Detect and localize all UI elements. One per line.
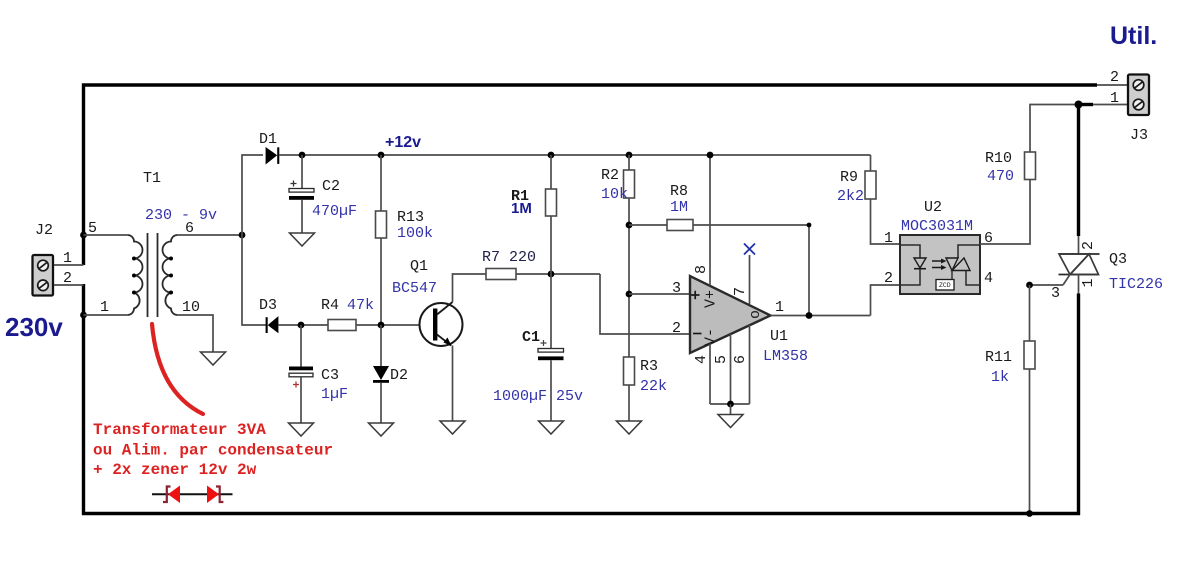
transformer T1 core bbox=[147, 233, 149, 317]
resistor R7 bbox=[486, 269, 516, 280]
node mains junction J3 pin1 bbox=[1075, 101, 1083, 109]
ground D2 bbox=[369, 423, 394, 436]
transformer T1 secondary winding bbox=[163, 235, 178, 315]
svg-text:D1: D1 bbox=[259, 131, 277, 148]
node base junction bbox=[378, 322, 385, 329]
svg-text:5: 5 bbox=[88, 220, 97, 237]
svg-text:U2: U2 bbox=[924, 199, 942, 216]
wire Q1 emitter bbox=[452, 346, 454, 422]
svg-text:47k: 47k bbox=[347, 297, 374, 314]
transformer T1 primary winding bbox=[128, 235, 143, 315]
no-connect X pin 7 bbox=[744, 244, 755, 255]
svg-text:1000µF 25v: 1000µF 25v bbox=[493, 388, 583, 405]
svg-text:Util.: Util. bbox=[1110, 22, 1157, 50]
svg-text:1M: 1M bbox=[511, 200, 532, 217]
transistor Q1 bbox=[420, 302, 463, 346]
pin 8 wire bbox=[709, 155, 711, 286]
svg-text:1: 1 bbox=[1080, 278, 1097, 287]
svg-text:230v: 230v bbox=[5, 312, 63, 342]
ground U1 bbox=[718, 415, 743, 428]
node C2 top bbox=[299, 152, 306, 159]
svg-text:R2: R2 bbox=[601, 167, 619, 184]
ground C3 bbox=[289, 423, 314, 436]
ground T1 pin10 bbox=[201, 352, 226, 365]
wire U1 output bbox=[771, 315, 871, 317]
svg-text:22k: 22k bbox=[640, 378, 667, 395]
node junction border-T1 pin5 bbox=[80, 232, 87, 239]
svg-text:J2: J2 bbox=[35, 222, 53, 239]
svg-text:T1: T1 bbox=[143, 170, 161, 187]
wire R8 left bbox=[629, 224, 667, 226]
svg-text:5: 5 bbox=[713, 355, 730, 364]
op-amp U1 bbox=[690, 276, 771, 353]
node junction border-T1 pin1 bbox=[80, 312, 87, 319]
wire output to U2 pin2 bbox=[871, 285, 901, 316]
mains border bottom wire bbox=[82, 512, 1080, 515]
svg-text:4: 4 bbox=[984, 270, 993, 287]
svg-text:7: 7 bbox=[732, 287, 749, 296]
wire D3 to R4 bbox=[278, 324, 328, 326]
resistor R13 bbox=[376, 155, 387, 325]
svg-text:LM358: LM358 bbox=[763, 348, 808, 365]
svg-text:Transformateur 3VA: Transformateur 3VA bbox=[93, 421, 266, 439]
node C1 top junction bbox=[548, 271, 555, 278]
wire J2 pin2 to border bbox=[54, 284, 84, 286]
wire AC node down to D3 bbox=[242, 235, 266, 325]
svg-text:2: 2 bbox=[884, 270, 893, 287]
resistor R11 bbox=[1024, 285, 1035, 514]
resistor R8 bbox=[667, 220, 693, 231]
node feedback junction bbox=[806, 312, 813, 319]
resistor R10 bbox=[1025, 105, 1079, 180]
node junction AC secondary bbox=[239, 232, 246, 239]
wire AC node up to D1 bbox=[242, 155, 263, 235]
svg-text:1k: 1k bbox=[991, 369, 1009, 386]
svg-text:1: 1 bbox=[100, 299, 109, 316]
diode D1 bbox=[266, 147, 280, 165]
mains right wire stub to J3 pin1 bbox=[1079, 103, 1094, 106]
svg-text:2: 2 bbox=[672, 320, 681, 337]
svg-text:1: 1 bbox=[775, 299, 784, 316]
svg-text:o: o bbox=[747, 310, 764, 319]
wire U2 pin6 to R10 bbox=[980, 180, 1030, 245]
pin 4 wire bbox=[709, 344, 711, 405]
svg-text:D3: D3 bbox=[259, 297, 277, 314]
svg-text:R3: R3 bbox=[640, 358, 658, 375]
svg-text:R10: R10 bbox=[985, 150, 1012, 167]
node R8 corner tick bbox=[807, 223, 812, 228]
svg-text:R7 220: R7 220 bbox=[482, 249, 536, 266]
svg-text:1M: 1M bbox=[670, 199, 688, 216]
svg-text:C2: C2 bbox=[322, 178, 340, 195]
wire to J3 pin2 bbox=[1097, 84, 1128, 86]
svg-text:ZCD: ZCD bbox=[939, 282, 951, 289]
svg-text:2k2: 2k2 bbox=[837, 188, 864, 205]
+12v rail wire bbox=[302, 154, 871, 156]
svg-text:V-: V- bbox=[703, 328, 720, 346]
wire T1 pin1 bbox=[84, 314, 129, 316]
mains border left wire lower bbox=[82, 284, 85, 515]
wire D1 cathode to +12v rail bbox=[279, 154, 302, 156]
node R13 top bbox=[378, 152, 385, 159]
svg-text:V+: V+ bbox=[703, 290, 720, 308]
svg-text:2: 2 bbox=[1080, 241, 1097, 250]
resistor R3 bbox=[624, 357, 635, 421]
svg-text:+12v: +12v bbox=[385, 134, 421, 151]
svg-text:Q3: Q3 bbox=[1109, 251, 1127, 268]
red annotation curve bbox=[152, 324, 203, 414]
svg-text:R9: R9 bbox=[840, 169, 858, 186]
svg-text:Q1: Q1 bbox=[410, 258, 428, 275]
svg-text:8: 8 bbox=[693, 265, 710, 274]
node R11 to mains bottom bbox=[1026, 510, 1033, 517]
pin 6 wire bbox=[749, 325, 751, 404]
svg-text:10k: 10k bbox=[601, 186, 628, 203]
svg-text:2: 2 bbox=[1110, 69, 1119, 86]
svg-text:R11: R11 bbox=[985, 349, 1012, 366]
svg-text:MOC3031M: MOC3031M bbox=[901, 218, 973, 235]
svg-text:6: 6 bbox=[732, 355, 749, 364]
svg-text:ou Alim. par condensateur: ou Alim. par condensateur bbox=[93, 442, 333, 460]
pin 7 wire bbox=[749, 255, 751, 304]
svg-text:470: 470 bbox=[987, 168, 1014, 185]
svg-text:C1: C1 bbox=[522, 329, 540, 346]
connector J3 bbox=[1128, 75, 1149, 116]
mains border left wire upper bbox=[82, 84, 85, 266]
connector J2 bbox=[33, 255, 54, 296]
node op-amp pin3 junction bbox=[626, 291, 633, 298]
resistor R2 bbox=[624, 155, 635, 357]
svg-text:R8: R8 bbox=[670, 183, 688, 200]
svg-text:TIC226: TIC226 bbox=[1109, 276, 1163, 293]
ground R3 bbox=[617, 421, 642, 434]
triac Q3 bbox=[1059, 236, 1100, 294]
svg-text:3: 3 bbox=[1051, 285, 1060, 302]
svg-text:1: 1 bbox=[1110, 90, 1119, 107]
wire T1 pin10 bbox=[177, 315, 213, 352]
wire Q1 collector bbox=[453, 274, 487, 302]
wire R7 to C1 node bbox=[516, 273, 600, 275]
capacitor C1 bbox=[538, 274, 564, 421]
svg-text:230 - 9v: 230 - 9v bbox=[145, 207, 217, 224]
svg-text:R4: R4 bbox=[321, 297, 339, 314]
zener diode D2 bbox=[373, 325, 389, 423]
wire Q3 gate bbox=[1030, 284, 1064, 286]
ground Q1 bbox=[440, 421, 465, 434]
capacitor C3 bbox=[289, 325, 313, 423]
resistor R9 bbox=[865, 155, 900, 244]
ground C2 bbox=[290, 233, 315, 246]
wire J2 pin1 to border bbox=[54, 264, 84, 266]
wire R8 right to feedback bbox=[693, 225, 809, 315]
svg-text:U1: U1 bbox=[770, 328, 788, 345]
svg-text:10: 10 bbox=[182, 299, 200, 316]
optocoupler U2 bbox=[900, 235, 980, 294]
svg-text:+ 2x zener 12v 2w: + 2x zener 12v 2w bbox=[93, 461, 257, 479]
ground C1 bbox=[539, 421, 564, 434]
capacitor C2 bbox=[289, 155, 314, 233]
diode D3 bbox=[266, 316, 279, 333]
wire R4 to base node bbox=[356, 324, 433, 326]
mains right wire upper bbox=[1077, 105, 1080, 237]
wire to J3 pin1 bbox=[1093, 104, 1128, 106]
svg-text:4: 4 bbox=[693, 355, 710, 364]
wire to op-amp non-inverting input bbox=[629, 293, 690, 295]
resistor R1 bbox=[546, 155, 557, 274]
svg-text:C3: C3 bbox=[321, 367, 339, 384]
svg-text:J3: J3 bbox=[1130, 127, 1148, 144]
svg-text:R13: R13 bbox=[397, 209, 424, 226]
svg-text:BC547: BC547 bbox=[392, 280, 437, 297]
node R2 top bbox=[626, 152, 633, 159]
node R1 top bbox=[548, 152, 555, 159]
svg-text:1µF: 1µF bbox=[321, 386, 348, 403]
resistor R4 bbox=[328, 320, 356, 331]
pin 5 wire bbox=[730, 334, 732, 404]
node R8 left junction bbox=[626, 222, 633, 229]
svg-text:1: 1 bbox=[884, 230, 893, 247]
wire T1 pin6 bbox=[177, 234, 242, 236]
red zener pair symbol bbox=[152, 486, 233, 504]
wire T1 pin5 bbox=[84, 234, 129, 236]
svg-text:D2: D2 bbox=[390, 367, 408, 384]
mains border top wire bbox=[82, 83, 1097, 86]
node gate junction bbox=[1026, 282, 1033, 289]
wire to op-amp inverting input bbox=[600, 274, 690, 334]
svg-text:3: 3 bbox=[672, 280, 681, 297]
mains right wire lower bbox=[1077, 294, 1080, 516]
svg-text:100k: 100k bbox=[397, 225, 433, 242]
ground bus U1 bbox=[710, 403, 750, 405]
svg-text:470µF: 470µF bbox=[312, 203, 357, 220]
node C3 top bbox=[298, 322, 305, 329]
